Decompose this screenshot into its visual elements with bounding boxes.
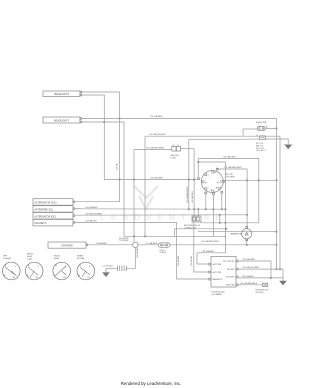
PCB module	[211, 256, 236, 287]
svg-text:B: B	[28, 265, 30, 267]
inline fuse	[158, 243, 170, 247]
headlight box 2	[43, 117, 80, 123]
internal contacts of circles	[5, 266, 90, 278]
connector right pin wire	[181, 148, 195, 150]
switch position circles	[3, 262, 95, 280]
svg-text:A1: A1	[64, 276, 66, 279]
connector on ORG/WHT wire	[172, 146, 176, 151]
svg-text:ALTERNATOR (A/C): ALTERNATOR (A/C)	[35, 202, 57, 205]
svg-text:B: B	[5, 265, 7, 267]
svg-text:ALTERNATOR (DC): ALTERNATOR (DC)	[35, 215, 57, 218]
svg-text:B: B	[56, 265, 58, 267]
battery feed wire	[170, 244, 277, 246]
svg-text:A1: A1	[13, 276, 15, 279]
svg-text:M: M	[27, 275, 29, 277]
wire HL2 pin1 to right bus	[82, 118, 277, 120]
vertical bundle wires	[188, 140, 190, 210]
svg-text:#18 GA RED/BLK: #18 GA RED/BLK	[240, 282, 258, 285]
svg-text:#16 GA YEL/BLK: #16 GA YEL/BLK	[149, 133, 166, 136]
svg-text:#16 GA ORG/WHT: #16 GA ORG/WHT	[146, 146, 165, 149]
svg-text:B: B	[80, 265, 82, 267]
PCB right wires	[238, 261, 271, 278]
svg-text:#18 GA YEL/WHT: #18 GA YEL/WHT	[242, 266, 260, 269]
svg-text:ALT PWR: ALT PWR	[213, 263, 222, 266]
svg-text:(+) 12V BLK: (+) 12V BLK	[103, 266, 114, 268]
svg-text:B: B	[215, 172, 217, 174]
solenoid feed vertical	[133, 149, 135, 241]
svg-text:#18 GA YEL/RED: #18 GA YEL/RED	[85, 212, 103, 215]
ground top right	[284, 144, 292, 146]
svg-text:#18 GA YEL: #18 GA YEL	[85, 220, 98, 223]
connector bottom wires	[194, 222, 209, 272]
switch B wire to ammeter	[217, 168, 247, 227]
fuse wires	[243, 128, 258, 130]
svg-text:#18 GA RED: #18 GA RED	[150, 115, 163, 118]
svg-text:ALT PWR: ALT PWR	[213, 271, 222, 274]
svg-text:G+M+A1: G+M+A1	[3, 257, 12, 260]
svg-text:#18 GA BLK: #18 GA BLK	[136, 247, 139, 258]
svg-text:#18 GA YEL: #18 GA YEL	[190, 256, 193, 266]
ignition switch	[201, 171, 223, 193]
svg-text:(IN FWD): (IN FWD)	[256, 292, 264, 294]
svg-text:#18 GA: #18 GA	[116, 163, 119, 170]
switch right wire	[225, 179, 277, 181]
starter box	[48, 242, 86, 248]
text under key relay	[256, 143, 266, 152]
svg-text:CONN: CONN	[170, 157, 176, 159]
afterfire wire tail	[75, 208, 82, 210]
solenoid to fuse	[138, 244, 158, 246]
svg-text:S: S	[208, 176, 210, 178]
wire #16 GA YEL/BLK	[145, 135, 280, 137]
headlight box 1	[43, 91, 80, 97]
svg-text:A: A	[245, 232, 249, 238]
svg-text:HEADLIGHTS: HEADLIGHTS	[54, 93, 70, 96]
svg-text:#18 GA GRN: #18 GA GRN	[242, 258, 255, 261]
svg-text:#6 GA RED: #6 GA RED	[96, 242, 108, 245]
svg-text:#18 GA ORG: #18 GA ORG	[223, 156, 236, 159]
switch pins	[216, 168, 218, 170]
svg-text:AMMETER: AMMETER	[231, 233, 242, 236]
svg-text:#18 GA RED: #18 GA RED	[85, 206, 98, 209]
key relay wires	[189, 139, 260, 140]
svg-text:#18 GA ORG: #18 GA ORG	[191, 191, 194, 203]
svg-text:GROUND: GROUND	[226, 277, 235, 279]
magneto wire	[75, 223, 209, 280]
svg-text:A: A	[266, 126, 268, 129]
junction dots headlight area	[103, 117, 120, 123]
svg-text:M: M	[55, 275, 57, 277]
svg-text:MAGNETO: MAGNETO	[213, 278, 224, 281]
svg-text:(OFF ACC): (OFF ACC)	[256, 149, 266, 152]
svg-text:TOP VIEW: TOP VIEW	[119, 240, 128, 242]
watermark logo chevron	[134, 186, 158, 209]
connector right wire	[201, 222, 259, 224]
svg-text:#16 GA RED/WHT: #16 GA RED/WHT	[201, 240, 220, 243]
svg-text:S: S	[15, 266, 17, 268]
wire y162 to x225	[198, 161, 225, 163]
switch bottom pin wires	[205, 194, 207, 209]
svg-text:#16 GA RED/WHT: #16 GA RED/WHT	[224, 166, 243, 169]
svg-text:S: S	[38, 266, 40, 268]
svg-text:TOP VIEW: TOP VIEW	[225, 176, 234, 178]
svg-text:A1: A1	[36, 276, 38, 279]
alternator AC wire	[75, 201, 120, 203]
svg-text:MAGNETO: MAGNETO	[35, 222, 47, 225]
svg-text:M: M	[4, 275, 6, 277]
svg-text:S: S	[65, 266, 67, 268]
reverse switch	[238, 284, 263, 286]
svg-text:#18 GA RED/WHT: #18 GA RED/WHT	[186, 186, 189, 203]
svg-text:L: L	[208, 187, 209, 189]
afterfire bus wire	[75, 208, 226, 210]
svg-text:#18 GA BLK: #18 GA BLK	[177, 255, 180, 266]
wire HL1 pin1 to alternator AC	[82, 92, 120, 202]
ORG wire to right rect	[198, 158, 258, 160]
GRN wire crossing dots	[188, 178, 196, 180]
svg-text:M: M	[205, 183, 207, 185]
solenoid bottom wire to coil	[127, 248, 136, 269]
svg-text:A2: A2	[217, 181, 219, 184]
svg-text:B+S+A1: B+S+A1	[77, 257, 85, 260]
svg-text:#6 GA RED: #6 GA RED	[146, 242, 158, 245]
svg-text:REV. SW: REV. SW	[226, 285, 234, 287]
svg-text:PB OUTPUT: PB OUTPUT	[223, 261, 235, 263]
svg-text:M: M	[79, 275, 81, 277]
right vertical bus A	[276, 119, 278, 270]
connector top stubs	[197, 209, 199, 216]
svg-text:S: S	[89, 266, 91, 268]
right vertical bus B	[279, 136, 281, 269]
svg-text:A1: A1	[216, 187, 218, 190]
alternator DC wire	[75, 214, 248, 216]
AMP connector	[192, 216, 201, 222]
svg-text:#18 GA GRN: #18 GA GRN	[150, 177, 163, 180]
wire HL1 pin2 down to GRN run	[82, 95, 198, 180]
svg-text:LEADVENTURE: LEADVENTURE	[100, 212, 227, 222]
ammeter	[242, 229, 252, 239]
mesh lines	[175, 228, 227, 230]
svg-text:20 AMP: 20 AMP	[160, 251, 167, 254]
svg-text:STARTER: STARTER	[61, 245, 73, 248]
svg-text:HEADLIGHTS: HEADLIGHTS	[54, 120, 70, 123]
coil	[118, 266, 127, 271]
svg-text:A1: A1	[88, 276, 90, 279]
alternator boxes	[33, 199, 73, 206]
solenoid	[133, 242, 138, 247]
svg-text:FUSE 20A: FUSE 20A	[256, 121, 267, 124]
svg-text:#18 GA RED: #18 GA RED	[202, 250, 215, 253]
svg-text:Rendered by LeadVenture, Inc.: Rendered by LeadVenture, Inc.	[121, 381, 182, 386]
svg-text:LH FRAME: LH FRAME	[212, 293, 223, 296]
wire HL2 pin2 down	[82, 122, 124, 236]
svg-text:PB GND: PB GND	[227, 269, 235, 271]
svg-text:AFTERFIRE SOL.: AFTERFIRE SOL.	[35, 208, 55, 211]
wire #16 GA ORG/WHT	[134, 148, 172, 150]
svg-text:#18 GA BLK: #18 GA BLK	[242, 275, 255, 278]
alt pwr 1 wire	[197, 223, 225, 264]
